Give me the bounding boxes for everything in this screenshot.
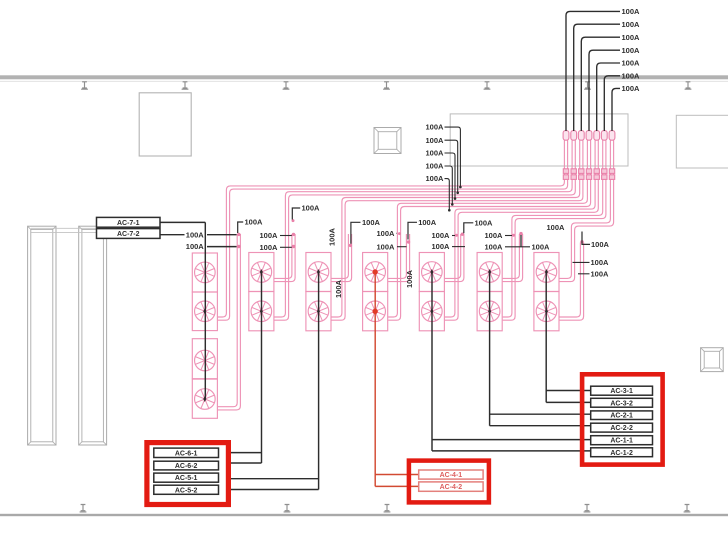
- wire pink branch pair column 5: [445, 234, 464, 282]
- AC unit column5 fan2: [419, 292, 444, 331]
- svg-text:100A: 100A: [362, 218, 381, 227]
- svg-text:100A: 100A: [475, 218, 494, 227]
- label box AC-7-1: [97, 217, 161, 227]
- labels 100A column4 rotated: [405, 269, 414, 288]
- svg-text:AC-7-1: AC-7-1: [117, 220, 140, 227]
- AC unit column6 fan1: [477, 253, 502, 292]
- svg-text:100A: 100A: [186, 242, 205, 251]
- AC unit column5 fan1: [419, 253, 444, 292]
- wire pink supply pair column 6: [503, 135, 606, 320]
- AC unit column3 fan2: [306, 292, 331, 331]
- label box AC-6-2: [154, 461, 219, 470]
- pillar tall left 2: [79, 226, 107, 445]
- svg-text:100A: 100A: [622, 59, 641, 68]
- AC unit column7 fan2: [534, 292, 559, 331]
- label box AC-4-2: [419, 482, 483, 491]
- AC unit column2 fan2: [249, 292, 274, 331]
- breaker tick column1: [238, 222, 244, 233]
- wire column3 to AC-5: [231, 271, 319, 489]
- breaker tick column4: [408, 222, 417, 239]
- svg-text:100A: 100A: [622, 20, 641, 29]
- svg-text:AC-4-1: AC-4-1: [440, 472, 463, 479]
- wire column2 to AC-6: [231, 271, 262, 463]
- svg-text:AC-2-2: AC-2-2: [610, 425, 633, 432]
- svg-text:100A: 100A: [622, 46, 641, 55]
- labels 100A top-right stack: [622, 7, 641, 93]
- label box AC-4-1: [419, 470, 483, 479]
- svg-text:AC-4-2: AC-4-2: [440, 484, 463, 491]
- box3d top-middle: [374, 128, 401, 154]
- wire pink branch pair column 7: [559, 243, 583, 321]
- svg-text:100A: 100A: [334, 279, 343, 298]
- AC unit column1 fan2: [192, 292, 217, 331]
- highlight red box AC-3/2/1: [582, 374, 663, 464]
- AC unit column6 fan2: [477, 292, 502, 331]
- wire pink branch pair column 6: [503, 234, 523, 282]
- breaker tick column3: [351, 222, 361, 244]
- wire pink branch pair column 4: [388, 234, 410, 282]
- svg-text:AC-1-1: AC-1-1: [610, 438, 633, 445]
- pillar connector lines: [31, 228, 158, 232]
- breaker tick column7: [582, 232, 610, 250]
- breaker dash column1 row2: [207, 246, 237, 248]
- svg-text:100A: 100A: [547, 223, 566, 232]
- wall bottom: [0, 514, 728, 516]
- flow arrows at fans: [203, 269, 548, 402]
- label 100A column4 tick: [418, 218, 437, 227]
- svg-text:AC-6-2: AC-6-2: [175, 463, 198, 470]
- wire pink supply pair column 5: [445, 135, 599, 320]
- svg-text:100A: 100A: [622, 7, 641, 16]
- label box AC-1-1: [591, 436, 653, 445]
- svg-text:100A: 100A: [622, 71, 641, 80]
- label box AC-7-2: [97, 229, 161, 239]
- svg-text:100A: 100A: [260, 231, 279, 240]
- label 100A extra right of column6: [532, 242, 551, 251]
- AC unit column7 fan1: [534, 253, 559, 292]
- label 100A column7: [547, 223, 566, 232]
- room rect top-right B: [676, 115, 728, 168]
- svg-text:100A: 100A: [426, 136, 445, 145]
- svg-text:AC-6-1: AC-6-1: [175, 450, 198, 457]
- svg-text:AC-3-2: AC-3-2: [610, 400, 633, 407]
- label box AC-1-2: [591, 448, 653, 457]
- label box AC-3-2: [591, 398, 653, 407]
- column markers bottom wall: [80, 505, 691, 512]
- label 100A column1 tick: [245, 218, 264, 227]
- svg-text:100A: 100A: [426, 123, 445, 132]
- label box AC-2-1: [591, 411, 653, 420]
- column markers top wall: [81, 82, 691, 89]
- room rect top-left: [139, 93, 191, 156]
- labels 100A column4 rows: [377, 229, 407, 251]
- svg-text:AC-2-1: AC-2-1: [610, 413, 633, 420]
- svg-text:100A: 100A: [426, 174, 445, 183]
- svg-text:100A: 100A: [485, 231, 504, 240]
- AC unit column2 fan1: [249, 253, 274, 292]
- wire pink supply pair column 4: [388, 135, 590, 320]
- AC unit column1 fan3: [192, 339, 217, 379]
- breaker hooks mid-left: [445, 127, 462, 211]
- svg-text:AC-7-2: AC-7-2: [117, 231, 140, 238]
- svg-text:100A: 100A: [532, 242, 551, 251]
- labels 100A column6 rows: [485, 231, 531, 251]
- wire AC-7-2 dash: [160, 234, 237, 236]
- highlight red box AC-6/AC-5: [147, 443, 229, 505]
- wire pink branch pair column 3: [331, 234, 351, 282]
- label box AC-6-1: [154, 448, 219, 457]
- svg-text:AC-5-1: AC-5-1: [175, 475, 198, 482]
- riser terminals row B: [563, 169, 614, 180]
- AC unit column3 fan1: [306, 253, 331, 292]
- wire AC-7-1 to column1: [160, 222, 205, 399]
- wire column4 to AC-4 (red): [375, 271, 419, 486]
- svg-text:100A: 100A: [426, 162, 445, 171]
- AC unit column4 fan1: [363, 253, 388, 292]
- svg-text:100A: 100A: [245, 218, 264, 227]
- svg-text:AC-5-2: AC-5-2: [175, 487, 198, 494]
- wire pink supply pair column 7: [559, 135, 613, 282]
- wire pink branch pair column 1: [218, 234, 241, 410]
- wire connection dots: [237, 219, 584, 248]
- svg-text:100A: 100A: [377, 242, 396, 251]
- pillar tall left 1: [28, 226, 56, 445]
- svg-text:100A: 100A: [591, 258, 610, 267]
- breaker tick column2: [292, 208, 300, 220]
- room rect top-right A: [450, 114, 628, 166]
- svg-text:100A: 100A: [302, 204, 321, 213]
- AC unit column1 fan4: [192, 379, 217, 418]
- breaker tick column5: [464, 223, 474, 233]
- svg-text:100A: 100A: [485, 242, 504, 251]
- svg-text:100A: 100A: [260, 243, 279, 252]
- svg-text:100A: 100A: [377, 229, 396, 238]
- svg-text:100A: 100A: [591, 270, 610, 279]
- labels 100A column5 rows: [432, 231, 466, 251]
- svg-text:100A: 100A: [186, 230, 205, 239]
- wire pink supply pair column 3: [331, 135, 583, 320]
- svg-text:100A: 100A: [622, 33, 641, 42]
- label 100A column3 tick: [362, 218, 381, 227]
- svg-text:100A: 100A: [622, 84, 641, 93]
- riser terminals row A: [563, 131, 615, 141]
- labels 100A right side: [573, 258, 610, 279]
- labels 100A column1 rows: [186, 230, 205, 251]
- wire column7 to AC-3: [546, 272, 591, 402]
- highlight red box AC-4: [409, 461, 489, 503]
- wall top: [0, 75, 728, 81]
- breaker tick column6: [520, 235, 522, 247]
- wire pink supply pair column 2: [274, 135, 575, 320]
- wire column6 to AC-2: [490, 272, 591, 426]
- wire pink supply pair column 1: [218, 135, 568, 320]
- AC unit column1 fan1: [192, 253, 217, 292]
- svg-text:100A: 100A: [432, 231, 451, 240]
- labels 100A column3 rotated2: [334, 279, 343, 298]
- label box AC-2-2: [591, 423, 653, 432]
- AC unit column4 fan2: [363, 292, 388, 331]
- svg-text:100A: 100A: [591, 240, 610, 249]
- svg-text:AC-3-1: AC-3-1: [610, 388, 633, 395]
- svg-text:100A: 100A: [426, 149, 445, 158]
- label 100A column2 tick: [302, 204, 321, 213]
- label 100A column5 tick: [475, 218, 494, 227]
- svg-text:AC-1-2: AC-1-2: [610, 450, 633, 457]
- wire pink branch pair column 2: [274, 234, 295, 282]
- box3d right-lower: [701, 348, 724, 372]
- labels 100A column2 rows: [260, 231, 292, 252]
- svg-text:100A: 100A: [405, 269, 414, 288]
- svg-text:100A: 100A: [418, 218, 437, 227]
- svg-text:100A: 100A: [328, 227, 337, 246]
- wire column5 to AC-1: [432, 272, 591, 451]
- svg-text:100A: 100A: [432, 242, 451, 251]
- label box AC-3-1: [591, 386, 653, 395]
- feeder wires to top-right breakers: [566, 11, 620, 131]
- labels 100A column3 rotated: [328, 227, 337, 246]
- label box AC-5-1: [154, 473, 219, 482]
- label box AC-5-2: [154, 485, 219, 494]
- labels 100A mid-left stack: [426, 123, 445, 184]
